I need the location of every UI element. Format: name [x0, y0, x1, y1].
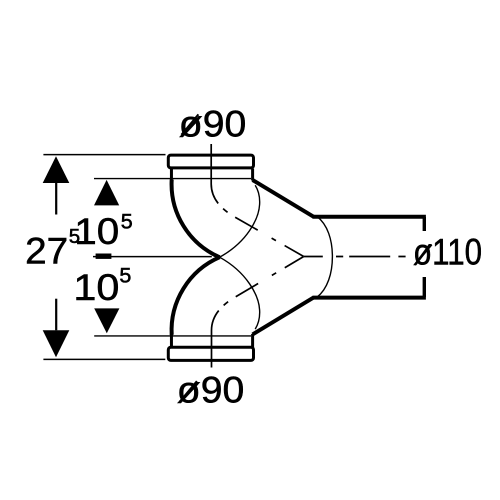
- svg-text:5: 5: [121, 210, 133, 234]
- wire inner arc upper: [220, 185, 260, 257]
- node top socket walls: [170, 169, 173, 180]
- wire top dimension line: [43, 154, 165, 156]
- svg-text:ø90: ø90: [177, 369, 245, 411]
- wire left centerline: [93, 256, 212, 258]
- wire horizontal centerline: [304, 256, 408, 258]
- wire outer S-curve lower: [172, 257, 220, 335]
- wire pipe end arc: [317, 216, 332, 297]
- wire bottom axis centerline: [212, 257, 304, 368]
- node top socket rim: [168, 155, 253, 168]
- node bottom socket rim: [168, 347, 253, 360]
- node center tick: [96, 254, 112, 259]
- node small down arrow: [94, 308, 119, 333]
- node diameter slash top: [181, 114, 198, 134]
- node diameter slash bottom: [180, 381, 197, 401]
- svg-text:5: 5: [119, 264, 131, 288]
- svg-text:10: 10: [74, 210, 119, 252]
- wire dimension bracket top: [423, 217, 426, 231]
- wire dimension bracket bottom: [423, 277, 426, 297]
- node bottom socket walls: [170, 334, 173, 348]
- wire bottom dimension line: [43, 358, 165, 360]
- svg-text:10: 10: [73, 266, 119, 308]
- svg-text:27: 27: [25, 230, 68, 272]
- wire outer S-curve upper: [172, 180, 220, 258]
- node big up arrow: [43, 156, 70, 183]
- node diameter slash right: [415, 245, 432, 265]
- wire upper mid dimension line: [94, 178, 251, 180]
- svg-text:ø90: ø90: [179, 102, 247, 144]
- wire lower right diagonal: [253, 298, 314, 335]
- wire upper right diagonal: [253, 180, 314, 217]
- wire inner arc lower: [220, 257, 260, 329]
- wire pipe bottom edge: [313, 296, 426, 300]
- svg-text:ø110: ø110: [413, 231, 482, 273]
- node big down arrow: [43, 330, 70, 357]
- wire pipe top edge: [313, 215, 426, 219]
- wire top axis centerline: [211, 144, 304, 257]
- node small up arrow: [94, 180, 119, 206]
- wire lower mid dimension line: [94, 335, 251, 337]
